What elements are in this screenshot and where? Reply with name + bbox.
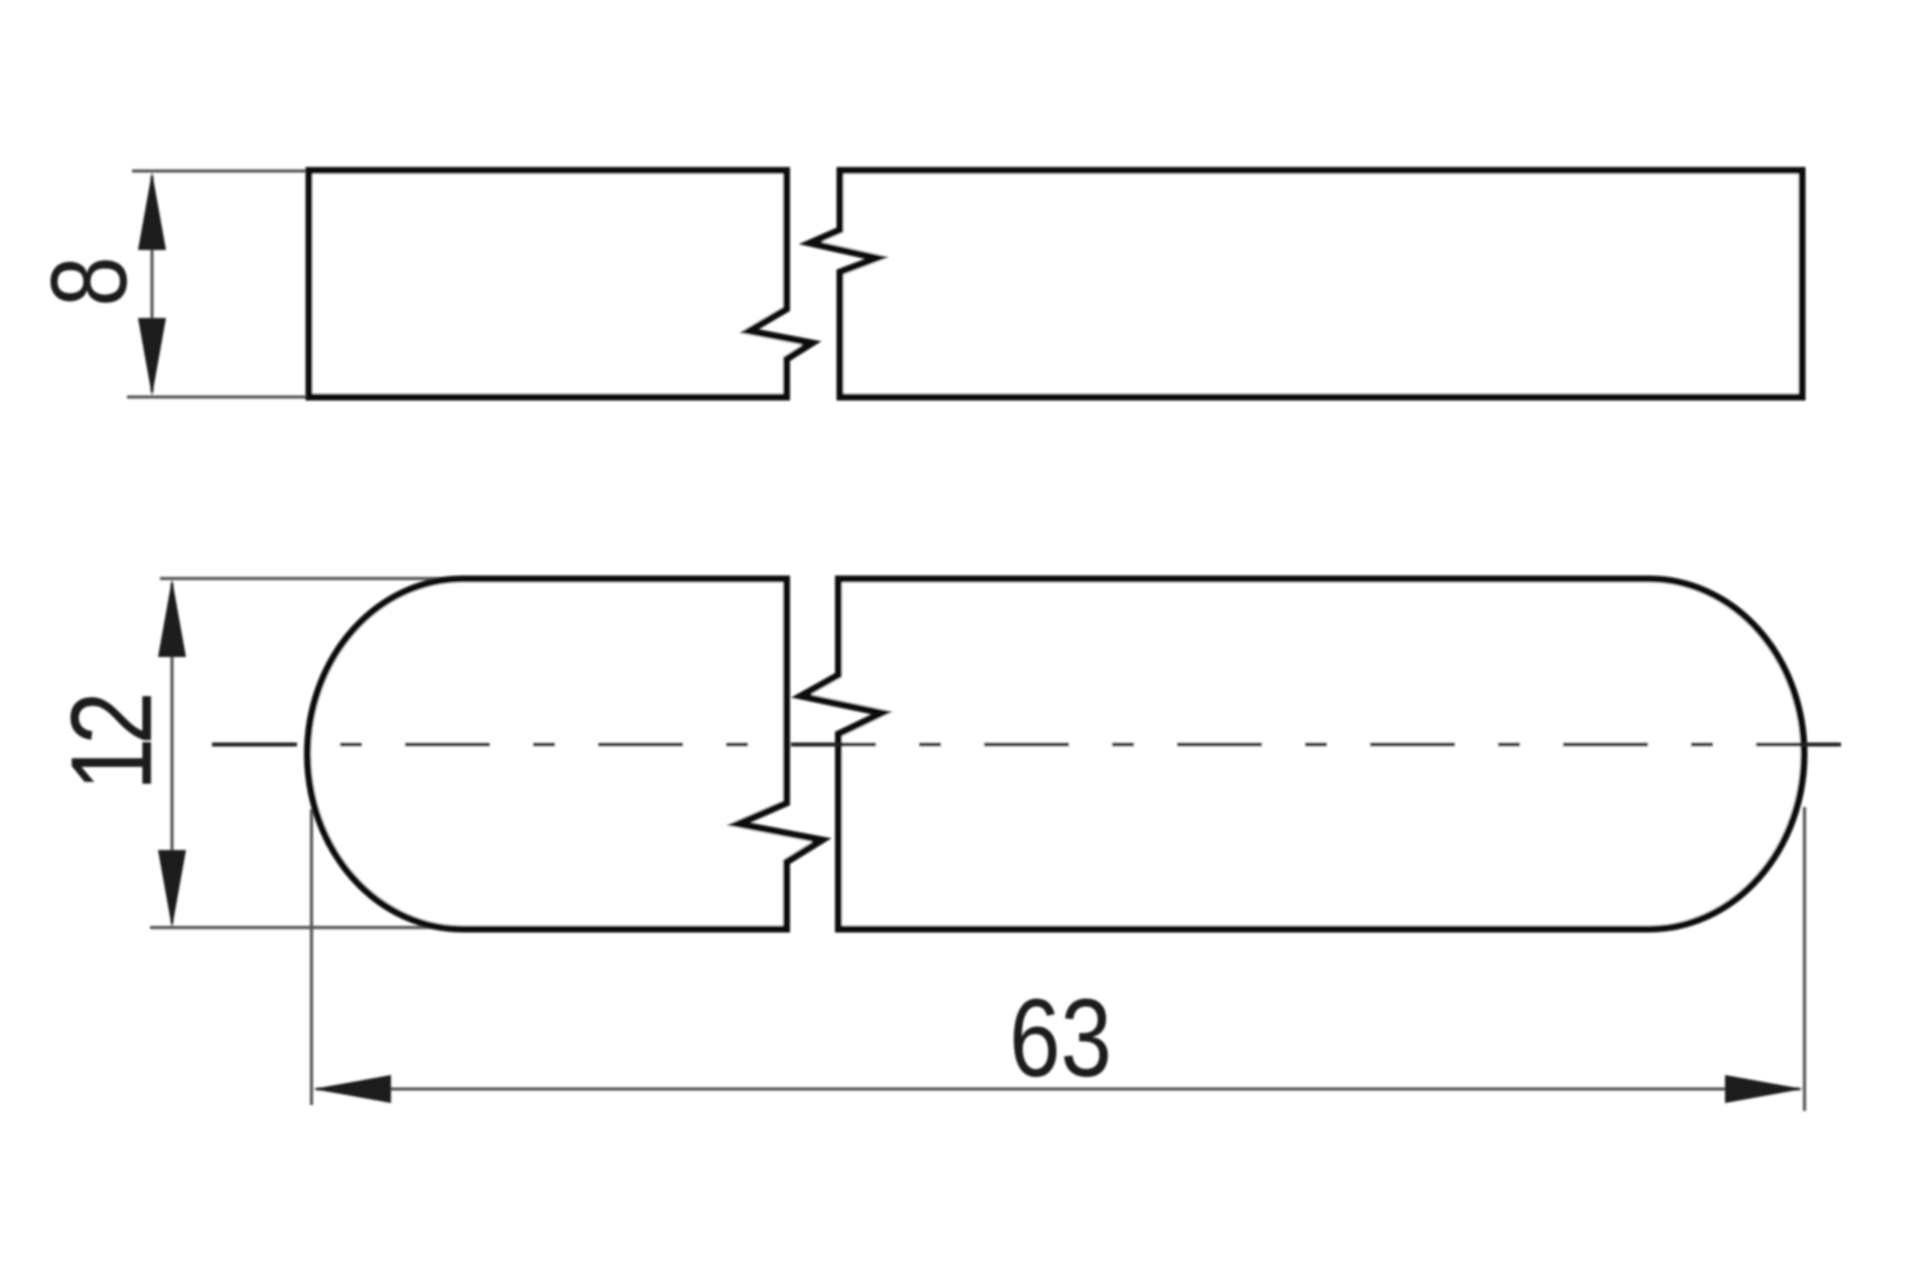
side view key outline, right piece with break edge [810,171,1802,398]
dimension text 8 [30,256,150,306]
arrowhead right of 63 dimension [1725,1075,1803,1103]
arrowhead up of 12 dimension [158,579,186,657]
top view key outline, left piece with rounded end and break edge [308,579,823,929]
dimension text 63 [1009,976,1112,1099]
dimension line 63 [316,1087,1800,1090]
svg-text:8: 8 [30,256,150,306]
svg-text:63: 63 [1009,976,1112,1099]
side view key outline, left piece with break edge [309,171,812,398]
dimension text 12 [47,696,176,791]
dimension line 12 [170,583,173,923]
centerline dash-dot axis [212,743,1847,747]
extension line, right of 63 dimension [1803,807,1806,1111]
arrowhead down of 12 dimension [158,850,186,928]
extension line, bottom of 8 dimension [127,395,306,398]
dimension line 8 [150,176,153,392]
top view key outline, right piece with rounded end and break edge [801,579,1804,929]
extension line, left of 63 dimension [310,809,313,1105]
arrowhead down of 8 dimension [138,318,166,396]
extension line, top of 8 dimension [132,169,306,172]
arrowhead up of 8 dimension [138,172,166,250]
svg-text:12: 12 [47,696,176,791]
extension line, top of 12 dimension [160,577,468,580]
extension line, bottom of 12 dimension [150,926,462,929]
arrowhead left of 63 dimension [313,1075,391,1103]
